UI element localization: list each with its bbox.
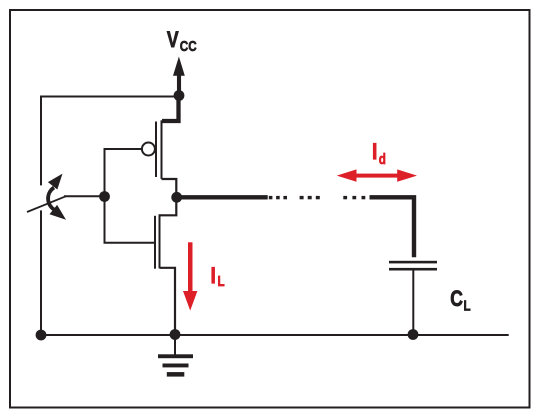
junction dot: output node <box>171 192 182 203</box>
svg-text:L: L <box>464 297 471 314</box>
wire: input node up to PMOS gate <box>105 149 142 198</box>
wire: dashed interconnect segment group 2 <box>300 196 320 199</box>
wire: left vertical upper segment <box>40 96 42 186</box>
current arrow Id (red double-headed) <box>337 169 417 181</box>
transistor Q1 (PMOS) gate line <box>155 122 157 178</box>
junction dot: left bottom node <box>36 330 47 341</box>
switch S1 blade <box>27 196 66 212</box>
ground symbol <box>158 335 193 377</box>
junction dot: VCC node <box>174 90 185 101</box>
svg-text:I: I <box>211 264 216 289</box>
wire: left vertical lower segment <box>40 210 42 335</box>
wire: dashed interconnect segment group 1 <box>269 196 287 199</box>
wire: top feedback from node A to VCC node <box>41 96 179 98</box>
label IL <box>211 264 225 289</box>
transistor Q2 (NMOS) gate line <box>154 216 156 269</box>
transistor Q1 (PMOS) drain lead to output node <box>162 179 177 197</box>
transistor Q1 (PMOS) source lead (thick) to VCC node <box>162 96 179 122</box>
junction dot: ground node <box>170 329 181 340</box>
svg-text:C: C <box>450 287 463 312</box>
capacitor CL top plate <box>389 261 437 264</box>
switch S1 toggle arc arrow <box>48 174 66 220</box>
wire: switch output to input node <box>64 195 105 197</box>
wire: input node down to NMOS gate <box>105 196 155 243</box>
svg-text:L: L <box>218 273 225 290</box>
wire: dashed interconnect segment group 3 <box>343 196 365 199</box>
svg-text:d: d <box>379 151 386 168</box>
wire: bottom ground bus <box>41 334 509 336</box>
junction dot: capacitor ground node <box>408 329 419 340</box>
current arrow IL (red, downward) <box>183 242 197 310</box>
label Id <box>372 140 386 168</box>
transistor Q2 (NMOS) drain lead from output node <box>160 197 177 215</box>
svg-text:CC: CC <box>180 38 197 55</box>
transistor Q1 (PMOS) gate bubble <box>142 143 155 156</box>
transistor Q2 (NMOS) channel line <box>159 214 161 268</box>
wire: capacitor bottom lead to ground bus <box>412 271 414 335</box>
label CL <box>450 287 470 314</box>
svg-text:V: V <box>167 28 179 53</box>
label VCC <box>167 28 197 54</box>
svg-text:I: I <box>372 140 377 165</box>
capacitor CL bottom plate <box>389 268 437 271</box>
power VCC arrow symbol <box>173 57 185 96</box>
transistor Q1 (PMOS) channel line <box>161 120 163 179</box>
transistor Q2 (NMOS) source lead to ground node <box>160 268 176 335</box>
wire: output trace (thick solid) from output node <box>177 195 268 199</box>
wire: thick solid segment to capacitor (with corner down) <box>370 197 415 257</box>
junction dot: input node <box>99 191 110 202</box>
